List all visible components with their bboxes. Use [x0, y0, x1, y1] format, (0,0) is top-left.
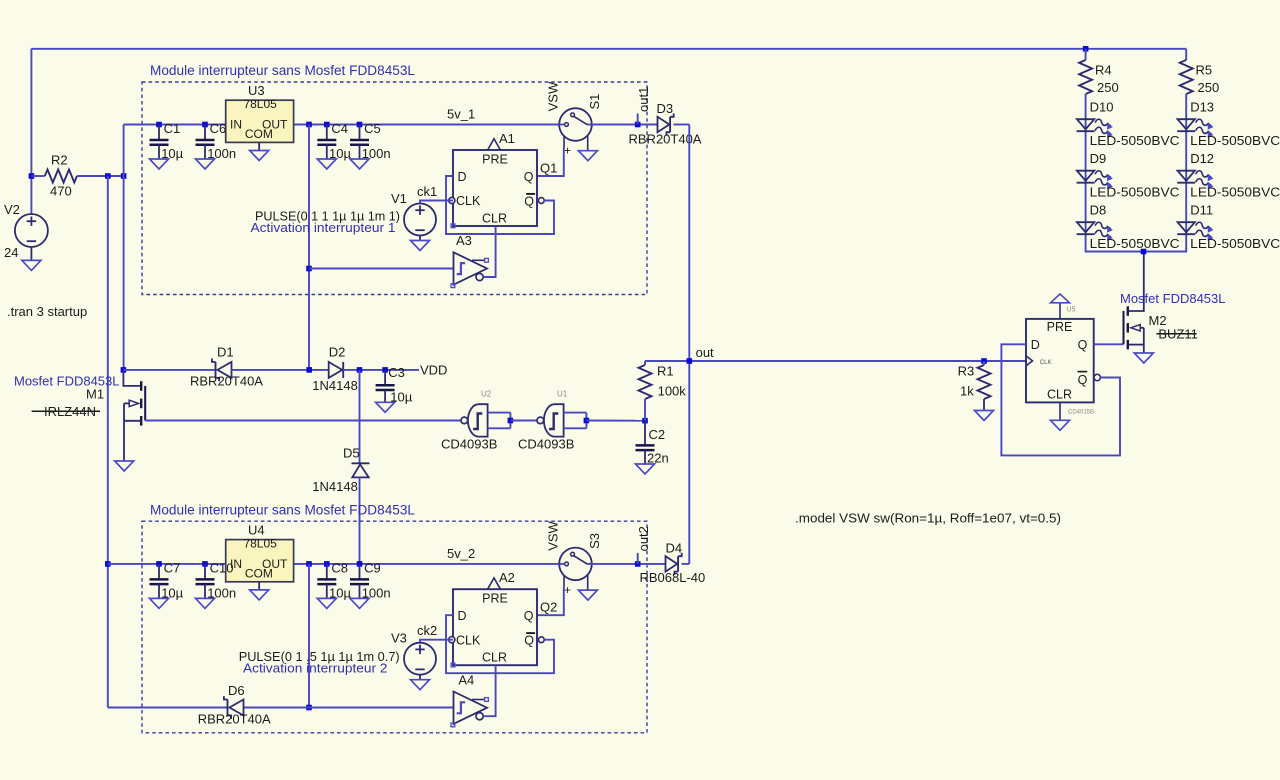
wire R1 to RC node: [644, 399, 646, 421]
junction C1 tap: [156, 122, 162, 128]
svg-text:VDD: VDD: [420, 363, 447, 378]
wire R2 right lead: [77, 175, 124, 177]
svg-text:D10: D10: [1090, 99, 1114, 114]
wire LED string left: [1086, 94, 1144, 252]
wire module 2 output rail: [293, 563, 559, 565]
led D13: [1178, 119, 1195, 129]
svg-text:C8: C8: [331, 560, 348, 575]
svg-text:Module interrupteur sans Mosfe: Module interrupteur sans Mosfet FDD8453L: [150, 502, 415, 517]
svg-text:V1: V1: [391, 191, 407, 206]
wire A2 Qbar feedback to D: [446, 615, 554, 673]
switch S1 VSW: [559, 108, 592, 141]
led D9: [1077, 171, 1094, 181]
U5 Qbar bubble: [1094, 374, 1100, 380]
diode D1: [215, 362, 217, 378]
junction C8 tap: [324, 561, 330, 567]
wire out1 stub: [637, 114, 639, 125]
ground under M1 source: [115, 461, 134, 471]
ground under V1: [411, 241, 430, 251]
A1 CLK bubble: [449, 197, 455, 203]
wire V2 to ground: [30, 247, 32, 260]
junction D5 tap: [357, 367, 363, 373]
wire module 2 input rail: [108, 563, 226, 565]
U5 Qbar overbar: [1078, 371, 1088, 373]
capacitor C9: [359, 564, 361, 580]
svg-text:RBR20T40A: RBR20T40A: [629, 132, 702, 147]
wire V1 to A1 CLK: [420, 201, 453, 204]
resistor R3: [978, 365, 991, 399]
svg-text:100n: 100n: [362, 146, 391, 161]
wire A1 Qbar feedback to D: [446, 176, 554, 234]
diode D3: [658, 117, 670, 132]
svg-text:C2: C2: [649, 427, 666, 442]
junction regulator 2 output node: [306, 561, 312, 567]
diode D6: [227, 700, 229, 716]
svg-text:Q: Q: [1078, 373, 1088, 387]
wire S3 control to Q2: [537, 587, 564, 615]
flip-flop U5 box: [1026, 319, 1094, 403]
svg-text:A3: A3: [456, 233, 472, 248]
svg-text:COM: COM: [245, 566, 273, 580]
wire U1 to RC node: [586, 420, 645, 422]
svg-text:COM: COM: [245, 127, 273, 141]
svg-text:D4: D4: [666, 541, 683, 556]
svg-text:CD4015B: CD4015B: [1068, 410, 1094, 416]
junction LED strings join: [1141, 249, 1147, 255]
svg-text:VSW: VSW: [546, 520, 561, 550]
svg-text:C5: C5: [364, 121, 381, 136]
led D8: [1077, 222, 1094, 232]
svg-text:A1: A1: [499, 131, 515, 146]
flip-flop A2 box: [453, 589, 537, 665]
svg-text:Activation interrupteur 1: Activation interrupteur 1: [251, 220, 396, 235]
diode D4: [666, 556, 678, 571]
junction C10 tap: [202, 561, 208, 567]
junction C7 tap: [156, 561, 162, 567]
svg-text:out: out: [696, 345, 714, 360]
junction out1 node: [635, 122, 641, 128]
svg-text:RB068L-40: RB068L-40: [640, 570, 706, 585]
wire D1 to D2: [232, 369, 329, 371]
ground under V2: [22, 260, 41, 270]
svg-text:100n: 100n: [362, 585, 391, 600]
svg-text:470: 470: [50, 184, 72, 199]
svg-text:78L05: 78L05: [243, 97, 277, 111]
svg-text:R3: R3: [958, 363, 975, 378]
wire A3 input: [309, 268, 454, 270]
wire V1 to ground: [419, 236, 421, 241]
svg-text:5v_2: 5v_2: [447, 546, 475, 561]
svg-text:100k: 100k: [658, 384, 687, 399]
svg-text:D13: D13: [1190, 99, 1214, 114]
wire A3 out bubble to CLR: [483, 226, 495, 277]
svg-text:LED-5050BVC: LED-5050BVC: [1090, 236, 1180, 251]
capacitor C7: [158, 564, 160, 580]
resistor R5: [1180, 60, 1193, 94]
regulator U4 78L05: [226, 540, 294, 582]
svg-text:LED-5050BVC: LED-5050BVC: [1090, 133, 1180, 148]
svg-text:+: +: [564, 144, 571, 158]
wire left supply drop to V2: [30, 49, 32, 214]
A1 corner pin square: [451, 224, 455, 228]
svg-text:ck1: ck1: [417, 184, 437, 199]
ground under M2 source: [1134, 353, 1153, 363]
wire D5 to module 2 rail: [359, 477, 361, 564]
wire V3 to A2 CLK: [420, 640, 453, 643]
wire U2 to U1: [510, 420, 537, 422]
svg-text:10µ: 10µ: [390, 390, 412, 405]
module 1 dashed border: [142, 82, 647, 295]
svg-text:22n: 22n: [647, 450, 669, 465]
A1 power caret: [488, 139, 501, 150]
voltage source V3: [404, 643, 436, 675]
svg-text:LED-5050BVC: LED-5050BVC: [1190, 133, 1280, 148]
ground under R3: [975, 411, 994, 421]
svg-text:D6: D6: [228, 683, 245, 698]
junction regulator output node: [306, 122, 312, 128]
svg-text:U3: U3: [248, 83, 265, 98]
svg-text:Q: Q: [524, 170, 534, 184]
wire out column vertical: [688, 125, 690, 564]
wire S3 to out2/D4: [592, 563, 666, 565]
mosfet M2: [1123, 311, 1125, 344]
capacitor C2: [644, 421, 646, 446]
svg-text:78L05: 78L05: [243, 537, 277, 551]
svg-text:.model VSW sw(Ron=1µ, Roff=1e0: .model VSW sw(Ron=1µ, Roff=1e07, vt=0.5): [795, 511, 1061, 526]
wire A4 input / D6 line: [108, 707, 228, 709]
svg-text:CD4093B: CD4093B: [441, 436, 497, 451]
module 2 dashed border: [142, 521, 647, 733]
capacitor C6: [204, 125, 206, 141]
regulator U3 78L05: [226, 100, 294, 142]
svg-text:+: +: [564, 583, 571, 597]
wire D3 to out column: [674, 124, 690, 126]
svg-text:D11: D11: [1190, 202, 1213, 217]
nand gate U2 CD4093B: [468, 404, 488, 436]
svg-text:D1: D1: [217, 344, 234, 359]
schmitt buffer A3: [454, 252, 488, 284]
svg-text:Q: Q: [524, 194, 534, 208]
junction C6 tap: [202, 122, 208, 128]
wire D6 to A4: [244, 707, 454, 709]
svg-text:CLR: CLR: [482, 211, 507, 225]
junction out node: [687, 358, 693, 364]
svg-text:PRE: PRE: [482, 592, 508, 606]
junction M1 branch node: [121, 173, 127, 179]
resistor R4: [1079, 60, 1092, 94]
wire R5 top lead: [1185, 49, 1187, 60]
svg-text:R2: R2: [51, 153, 68, 168]
svg-text:CLK: CLK: [1040, 360, 1052, 366]
wire U4 output branch down: [308, 564, 310, 708]
svg-text:VSW: VSW: [546, 81, 561, 111]
junction RC node: [642, 418, 648, 424]
svg-text:CLR: CLR: [1047, 388, 1072, 402]
svg-text:CLK: CLK: [456, 194, 481, 208]
capacitor C3: [384, 370, 386, 385]
ground under V3: [411, 680, 430, 690]
junction module 2 rail start: [105, 561, 111, 567]
wire top supply rail: [31, 48, 1186, 50]
wire V3 to ground: [419, 675, 421, 680]
junction U1 input node: [584, 418, 590, 424]
U5 CLK wedge: [1026, 356, 1033, 366]
wire U5 Q to M2 gate: [1094, 343, 1124, 345]
mosfet M1: [123, 370, 140, 386]
svg-text:D3: D3: [657, 101, 674, 116]
svg-text:250: 250: [1198, 80, 1220, 95]
svg-text:C7: C7: [164, 560, 181, 575]
wire M1 branch vertical: [123, 125, 125, 370]
svg-text:R1: R1: [657, 363, 674, 378]
svg-text:C3: C3: [388, 365, 405, 380]
diode D5 (vertical, cathode up): [352, 462, 370, 464]
svg-text:A4: A4: [458, 672, 474, 687]
A2 power caret: [488, 578, 501, 589]
wire module 1 input rail: [124, 124, 226, 126]
svg-text:A2: A2: [499, 570, 515, 585]
capacitor C5: [359, 125, 361, 141]
wire S1 control to Q1: [537, 148, 564, 177]
svg-text:U2: U2: [481, 390, 492, 399]
wire out horizontal: [645, 360, 1026, 362]
voltage source V2: [15, 214, 48, 247]
svg-text:U5: U5: [1067, 307, 1076, 314]
svg-text:PRE: PRE: [482, 153, 508, 167]
svg-text:24: 24: [4, 245, 18, 260]
svg-text:out2: out2: [636, 526, 651, 551]
svg-text:V3: V3: [391, 631, 407, 646]
capacitor C4: [326, 125, 328, 141]
svg-text:D9: D9: [1090, 151, 1107, 166]
wire M1 gate to gates: [145, 420, 461, 422]
svg-text:CLK: CLK: [456, 633, 481, 647]
wire S1 to out1/D3: [592, 124, 658, 126]
svg-text:LED-5050BVC: LED-5050BVC: [1090, 185, 1180, 200]
svg-text:D8: D8: [1090, 202, 1107, 217]
junction M1 drain node: [121, 367, 127, 373]
wire R4 top lead: [1085, 49, 1087, 60]
svg-text:D: D: [1031, 338, 1040, 352]
resistor R1: [639, 365, 652, 399]
wire U3 output branch down: [308, 125, 310, 370]
svg-text:10µ: 10µ: [161, 585, 183, 600]
wire out node to R1: [644, 361, 646, 365]
svg-text:.tran 3 startup: .tran 3 startup: [7, 304, 87, 319]
junction LED supply tap: [1083, 46, 1089, 52]
svg-text:D5: D5: [343, 446, 360, 461]
svg-text:out1: out1: [636, 87, 651, 112]
svg-text:S3: S3: [587, 533, 602, 549]
svg-text:10µ: 10µ: [161, 146, 183, 161]
wire D2 to VDD: [343, 369, 419, 371]
svg-text:S1: S1: [587, 94, 602, 110]
resistor R2: [45, 170, 77, 183]
svg-text:RBR20T40A: RBR20T40A: [190, 374, 263, 389]
svg-text:D2: D2: [329, 344, 346, 359]
svg-text:LED-5050BVC: LED-5050BVC: [1190, 236, 1280, 251]
svg-text:D: D: [458, 609, 467, 623]
wire U5 Qbar feedback to D: [1001, 344, 1120, 455]
junction C3 tap: [382, 367, 388, 373]
svg-text:10µ: 10µ: [329, 146, 351, 161]
nand gate U1 CD4093B: [544, 404, 564, 436]
svg-text:Q: Q: [524, 609, 534, 623]
junction left rail node: [105, 173, 111, 179]
svg-text:U4: U4: [248, 522, 265, 537]
diode D2: [329, 362, 343, 378]
M1 strikethrough: [32, 410, 100, 412]
svg-text:Q2: Q2: [540, 600, 557, 615]
svg-text:Q1: Q1: [540, 160, 557, 175]
svg-text:10µ: 10µ: [329, 585, 351, 600]
svg-text:Q: Q: [1078, 338, 1088, 352]
svg-text:100n: 100n: [207, 585, 236, 600]
svg-text:D: D: [458, 170, 467, 184]
svg-text:D12: D12: [1190, 151, 1214, 166]
led D10: [1077, 119, 1094, 129]
junction out2 node: [635, 561, 641, 567]
A1 Qbar overbar: [526, 193, 535, 195]
svg-text:IN: IN: [230, 118, 242, 132]
svg-text:U1: U1: [557, 390, 568, 399]
wire module 1 output rail: [293, 124, 559, 126]
junction C4 tap: [324, 122, 330, 128]
svg-text:RBR20T40A: RBR20T40A: [198, 711, 271, 726]
switch S3 VSW: [559, 548, 592, 581]
voltage source V1: [404, 204, 436, 236]
svg-text:5v_1: 5v_1: [447, 107, 475, 122]
svg-text:Mosfet FDD8453L: Mosfet FDD8453L: [1120, 291, 1226, 306]
svg-text:Q: Q: [524, 634, 534, 648]
svg-text:C6: C6: [210, 121, 227, 136]
svg-text:PRE: PRE: [1047, 320, 1073, 334]
junction A4 input tap: [306, 705, 312, 711]
wire out2 stub: [637, 553, 639, 564]
svg-text:C10: C10: [210, 560, 234, 575]
svg-text:CLR: CLR: [482, 651, 507, 665]
A2 CLK bubble: [449, 637, 455, 643]
svg-text:R4: R4: [1095, 63, 1112, 78]
schmitt buffer A4: [454, 692, 488, 724]
M2 strikethrough: [1156, 333, 1196, 335]
svg-text:V2: V2: [4, 202, 20, 217]
svg-text:CD4093B: CD4093B: [518, 436, 574, 451]
led D12: [1178, 171, 1195, 181]
capacitor C8: [326, 564, 328, 580]
junction R3 tap: [981, 358, 987, 364]
led D11: [1178, 222, 1195, 232]
flip-flop A1 box: [453, 150, 537, 226]
svg-text:C1: C1: [164, 121, 181, 136]
A2 Qbar bubble: [538, 637, 544, 643]
svg-text:Activation interrupteur 2: Activation interrupteur 2: [243, 661, 388, 676]
svg-text:Module interrupteur sans Mosfe: Module interrupteur sans Mosfet FDD8453L: [150, 63, 415, 78]
wire D4 to out column: [682, 563, 690, 565]
A1 Qbar bubble: [538, 198, 544, 204]
svg-text:C4: C4: [331, 121, 348, 136]
junction C5 tap: [357, 122, 363, 128]
svg-text:1k: 1k: [960, 384, 974, 399]
U5 CLR ground arrow: [1059, 402, 1061, 420]
junction A3 input tap: [306, 266, 312, 272]
svg-text:LED-5050BVC: LED-5050BVC: [1190, 185, 1280, 200]
junction U2 input node: [508, 418, 514, 424]
svg-text:ck2: ck2: [417, 623, 437, 638]
U5 PRE arrow: [1059, 303, 1061, 319]
junction VDD branch node: [306, 367, 312, 373]
svg-text:C9: C9: [364, 560, 381, 575]
A2 corner pin square: [451, 663, 455, 667]
A2 Qbar overbar: [526, 632, 535, 634]
junction V2/R2 node: [29, 173, 35, 179]
wire D5 branch: [359, 370, 361, 464]
svg-text:1N4148: 1N4148: [312, 378, 358, 393]
wire LED string right: [1144, 94, 1187, 252]
svg-text:M1: M1: [86, 387, 104, 402]
junction C9 tap: [357, 561, 363, 567]
svg-text:250: 250: [1097, 80, 1119, 95]
svg-text:100n: 100n: [207, 146, 236, 161]
wire A4 out bubble to CLR: [483, 665, 495, 716]
capacitor C1: [158, 125, 160, 141]
svg-text:R5: R5: [1196, 63, 1213, 78]
wire left rail down to module 2: [107, 176, 109, 708]
svg-text:1N4148: 1N4148: [312, 479, 358, 494]
capacitor C10: [204, 564, 206, 580]
wire R2 left lead: [31, 175, 44, 177]
wire D-line from M1 node: [123, 369, 215, 371]
